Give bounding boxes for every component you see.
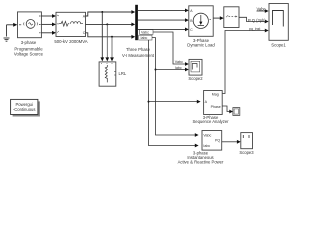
wire C source->impedance [41,32,52,34]
node C tap [111,36,113,38]
sequence analyzer [204,91,223,115]
svg-text:Iabc: Iabc [203,144,210,148]
Iabc tag [139,35,152,40]
svg-text:LRL: LRL [119,71,127,76]
wire phase C impedance->bus [86,33,132,37]
wire phase B impedance->bus [86,23,132,25]
wire B source->impedance [41,23,52,25]
svg-text:Dynamic Load: Dynamic Load [187,42,215,47]
label: voltage source [14,40,44,57]
wire drop phase C to RLC load [111,37,113,58]
wire phase -> small scope [222,106,229,112]
svg-text:Sequence Analyzer: Sequence Analyzer [192,119,229,124]
source impedance block Z1 (500kV 2000MVA) [56,12,86,36]
wire tap -> scope2 in2 [156,69,186,71]
scope3 [241,133,253,149]
svg-text:Scope3: Scope3 [239,150,254,155]
label: instantaneous power [178,151,224,165]
svg-text:Vabc: Vabc [175,60,183,64]
wire mag -> scope1 in3 [222,31,265,94]
svg-text:-Continuous: -Continuous [13,107,36,112]
wire Vabc tag -> scope2 in1 [153,32,185,64]
wire drop phase B to RLC load [106,24,108,57]
scope1 [269,4,288,41]
bus bar B1 (three-phase V-I measurement) [135,5,138,40]
wire Vabc -> scope1 in1 [257,10,266,12]
node B tap [106,23,108,25]
three-phase RLC load [99,62,116,86]
small scope (phase) [233,108,240,116]
wire Iabc vertical to power block [149,40,196,146]
scope2 [189,59,202,75]
wire Iabc tag down [152,38,195,135]
wire bus->dynamic load A [138,9,185,11]
3-phase programmable voltage source U1 [18,12,42,38]
svg-text:Iabc: Iabc [175,66,182,70]
wire bus->dynamic load C [138,28,185,30]
wire m output -> selector [213,17,220,19]
wire selector -> scope1 in2 [239,17,265,21]
three-phase dynamic load [189,6,213,37]
svg-text:Vabc: Vabc [141,31,149,35]
wire bus->dynamic load B [138,19,185,21]
svg-text:Voltage Source: Voltage Source [14,52,44,57]
svg-text:500-kV 2000MVA: 500-kV 2000MVA [54,39,87,44]
svg-text:Programmable: Programmable [14,46,43,51]
svg-text:Active & Reactive Power: Active & Reactive Power [178,159,224,164]
wire tap -> sequence analyzer [149,101,198,103]
wire A source->impedance [41,15,52,17]
wire ground to source input [7,24,15,26]
ground [4,25,10,41]
svg-text:pq_inst: pq_inst [249,27,260,31]
svg-text:P Q (3ph): P Q (3ph) [248,18,266,23]
svg-text:Vabc: Vabc [203,134,211,138]
svg-text:V-I Measurement: V-I Measurement [122,53,155,58]
svg-text:3-phase: 3-phase [21,40,37,45]
svg-text:Powergui: Powergui [15,102,33,107]
label: measurement block [122,47,155,58]
wire drop phase A to RLC load [101,12,103,58]
svg-text:PQ: PQ [215,138,220,142]
label: dynamic load [187,38,215,48]
svg-text:Iabc: Iabc [141,36,148,40]
wire phase A impedance->bus [86,12,132,16]
Vabc tag [140,30,153,35]
node analyzer tap [148,101,150,103]
node A tap [101,11,103,13]
instantaneous power block [202,131,222,151]
selector block (measurement demux) [224,7,239,28]
svg-text:Mag: Mag [212,92,219,96]
label: sequence analyzer [192,115,229,124]
wire PQ -> scope3 [222,141,237,143]
powergui block [11,99,40,116]
svg-text:Vabc: Vabc [257,7,266,12]
svg-text:C: C [83,31,86,35]
svg-text:Scope1: Scope1 [271,42,286,47]
svg-text:Phase: Phase [211,105,221,109]
svg-text:Scope2: Scope2 [188,76,203,81]
svg-text:Three Phase: Three Phase [126,47,151,52]
node scope2 tap [155,69,157,71]
